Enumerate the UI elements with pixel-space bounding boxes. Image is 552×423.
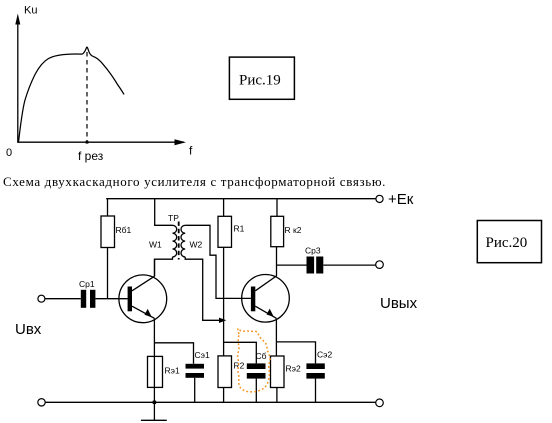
wire Ce1 to rail bbox=[194, 378, 196, 403]
wire W2 top to T2 base bbox=[185, 225, 251, 298]
capacitor Cp1 bbox=[81, 290, 96, 308]
wire Cb to rail bbox=[255, 379, 257, 403]
wire R2 to rail bbox=[223, 388, 225, 403]
terminal +Ek bbox=[376, 195, 383, 202]
wire W2 bottom to R1-R2 node bbox=[185, 257, 219, 320]
svg-text:R2: R2 bbox=[234, 361, 245, 371]
svg-text:Rэ2: Rэ2 bbox=[286, 364, 301, 374]
wire bottom rail bbox=[45, 401, 375, 403]
svg-text:+Ек: +Ек bbox=[388, 191, 414, 208]
transistor T2 bbox=[242, 275, 290, 323]
wire transformer W1 top feed bbox=[155, 199, 173, 226]
svg-text:Rэ1: Rэ1 bbox=[165, 366, 180, 376]
resistor Rk2 bbox=[271, 216, 284, 246]
graph x-axis f bbox=[17, 139, 186, 145]
svg-text:Ср1: Ср1 bbox=[79, 279, 95, 289]
wire collector to Cp3 bbox=[277, 264, 307, 266]
svg-text:Сб: Сб bbox=[256, 351, 267, 361]
wire Rk2 bottom to T2 collector bbox=[276, 247, 278, 276]
transformer winding W2 bbox=[181, 225, 185, 257]
wire T2 emitter down bbox=[275, 318, 277, 356]
svg-text:R к2: R к2 bbox=[285, 225, 302, 235]
graph y-axis Ku bbox=[15, 14, 20, 143]
svg-text:W2: W2 bbox=[190, 240, 203, 250]
svg-text:Cэ1: Cэ1 bbox=[195, 350, 210, 360]
svg-text:f: f bbox=[189, 143, 193, 157]
wire Re2-Ce2 branch bbox=[277, 342, 316, 364]
figure box Ris.19 bbox=[229, 57, 294, 99]
graph dashed line at f rez bbox=[86, 52, 88, 141]
wire W1 bottom to T1 collector bbox=[155, 257, 173, 276]
svg-text:Рис.19: Рис.19 bbox=[239, 73, 281, 89]
svg-text:Ku: Ku bbox=[24, 5, 37, 17]
capacitor Ce2 bbox=[306, 363, 324, 378]
svg-text:W1: W1 bbox=[149, 240, 162, 250]
terminal bottom right bbox=[376, 399, 384, 407]
capacitor Cp3 bbox=[307, 257, 324, 274]
wire Rb1 bottom to base node bbox=[107, 248, 109, 299]
svg-text:Rб1: Rб1 bbox=[116, 225, 132, 235]
wire Rb1 top bbox=[107, 199, 109, 217]
terminal bottom left bbox=[38, 399, 45, 406]
svg-text:Uвых: Uвых bbox=[380, 295, 418, 312]
wire R1 bottom to R2 bbox=[223, 247, 225, 356]
transistor T1 bbox=[119, 275, 167, 323]
resistor Re1 bbox=[148, 356, 163, 387]
capacitor Cb bbox=[247, 363, 266, 378]
resistor Rb1 bbox=[101, 216, 115, 248]
wire input to Cp1 bbox=[45, 298, 81, 300]
annotation orange dotted loop around R2 and Cb bbox=[238, 328, 270, 392]
wire T1 emitter down bbox=[153, 318, 155, 402]
resistor Re2 bbox=[271, 356, 285, 388]
svg-text:Рис.20: Рис.20 bbox=[486, 235, 528, 251]
svg-text:0: 0 bbox=[6, 147, 12, 159]
capacitor Ce1 bbox=[186, 364, 205, 378]
arrow at R1-R2 node bbox=[219, 318, 226, 323]
wire Rk2 top bbox=[276, 199, 278, 217]
wire Cp1 to T1 base bbox=[95, 298, 127, 300]
wire T1 collector up bbox=[154, 259, 156, 276]
wire R2-Cb branch bbox=[224, 342, 257, 363]
svg-text:Cэ2: Cэ2 bbox=[317, 350, 332, 360]
ground bbox=[141, 402, 167, 420]
terminal input bbox=[38, 295, 45, 302]
svg-text:Ср3: Ср3 bbox=[305, 246, 321, 256]
graph response curve bbox=[19, 47, 125, 142]
svg-text:R1: R1 bbox=[234, 224, 245, 234]
svg-text:ТР: ТР bbox=[168, 213, 179, 223]
junction dot ground node bbox=[153, 401, 156, 404]
svg-text:Uвх: Uвх bbox=[15, 321, 42, 338]
transformer core dashed bbox=[178, 222, 180, 260]
wire Ce2 to rail bbox=[315, 379, 317, 403]
wire R1 top bbox=[223, 199, 225, 217]
wire Cp3 to output terminal bbox=[323, 264, 375, 266]
wire Re1-Ce1 branch bbox=[155, 343, 194, 364]
wire Re2 to rail bbox=[276, 388, 278, 403]
graph dot on axis at f rez bbox=[86, 141, 89, 144]
figure box Ris.20 bbox=[477, 221, 541, 263]
svg-text:f рез: f рез bbox=[78, 149, 104, 163]
wire top supply rail bbox=[106, 198, 376, 200]
resistor R1 bbox=[218, 216, 232, 247]
resistor R2 bbox=[218, 356, 232, 388]
transformer winding W1 bbox=[173, 225, 177, 257]
terminal output top bbox=[376, 261, 384, 269]
svg-text:Схема двухкаскадного усилителя: Схема двухкаскадного усилителя с трансфо… bbox=[3, 174, 386, 189]
